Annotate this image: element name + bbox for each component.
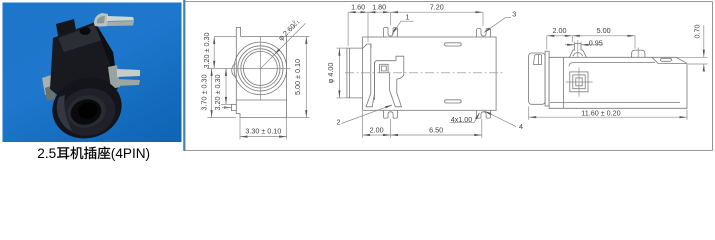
view1 dim 3.30 bottom — [239, 118, 241, 140]
view2 dim 1.80 — [390, 12, 392, 25]
svg-text:2.5: 2.5 — [37, 146, 56, 161]
caption glyph 耳 — [57, 147, 69, 159]
view3 window centerlines — [566, 81, 593, 83]
svg-text:2.00: 2.00 — [370, 126, 384, 135]
view1 dim 3.20 inner-left — [225, 68, 227, 104]
caption glyph 机 — [70, 147, 83, 160]
svg-text:5.00: 5.00 — [597, 26, 611, 35]
frame: top border — [184, 1, 713, 3]
view2 bottom-right pin — [477, 110, 491, 118]
jack photo: top-left black tab — [56, 19, 77, 41]
view2 contact spring left leg — [366, 44, 375, 107]
view3 top pin — [570, 43, 587, 57]
svg-text:1.60: 1.60 — [351, 3, 365, 12]
view3 inner bottom line — [550, 102, 680, 104]
svg-text:(4PIN): (4PIN) — [111, 146, 150, 161]
view2 dim phi4.00 — [337, 47, 347, 49]
jack photo: barrel rim highlight — [57, 95, 72, 131]
svg-text:3.70 ± 0.30: 3.70 ± 0.30 — [199, 75, 208, 111]
view2 contact dimple — [380, 64, 389, 72]
view3 cap — [529, 53, 546, 104]
view2 dim 6.50 — [481, 119, 483, 138]
frame: blue separator line — [183, 0, 185, 151]
svg-text:3: 3 — [512, 9, 516, 18]
view3 dim 2.00 — [546, 36, 548, 50]
view2 body rect — [363, 37, 497, 110]
view2 dim 7.20 — [482, 12, 484, 26]
view3 dim 5.00 — [634, 36, 636, 49]
view3 flange — [545, 51, 549, 106]
jack photo: bent silver pin top — [94, 13, 108, 27]
view3 dim 0.95 — [574, 42, 576, 48]
view3 window outer — [570, 72, 588, 92]
view2 barrel face — [347, 48, 363, 98]
svg-text:7.20: 7.20 — [430, 3, 444, 12]
view1 body outline — [236, 27, 286, 117]
svg-text:1: 1 — [406, 13, 410, 22]
view3 cap tab — [533, 55, 541, 65]
jack photo: top pin fork — [107, 16, 134, 21]
view2 top-left pin — [384, 28, 398, 37]
jack photo: barrel hole — [76, 100, 100, 121]
view2 slot bottom — [445, 100, 462, 103]
view2 internal chamfer — [363, 44, 371, 49]
view3 dome pin — [632, 50, 645, 57]
view3 dim 0.70 — [676, 56, 708, 58]
frame: right border — [712, 2, 714, 151]
view3 ledge — [652, 57, 687, 63]
svg-text:11.60 ± 0.20: 11.60 ± 0.20 — [581, 108, 620, 117]
view2 centerline — [345, 72, 505, 74]
svg-text:6.50: 6.50 — [429, 126, 443, 135]
view2 bottom-left pin — [384, 110, 398, 118]
svg-text:0.70: 0.70 — [692, 25, 701, 39]
jack photo: black knob on top — [80, 27, 91, 35]
view1 center lines — [207, 67, 291, 69]
jack photo: left silver tab — [42, 74, 56, 95]
view3 separator — [563, 57, 565, 108]
jack photo: barrel opening ring — [63, 91, 109, 133]
view3 body outline — [549, 57, 687, 108]
view1 left pin — [232, 104, 237, 110]
jack photo: body right facet — [95, 23, 118, 88]
svg-text:2: 2 — [337, 118, 341, 127]
view3 dim 11.60 — [528, 107, 530, 120]
svg-text:5.00 ± 0.10: 5.00 ± 0.10 — [293, 59, 302, 95]
svg-text:4: 4 — [519, 122, 523, 131]
svg-text:0.95: 0.95 — [589, 38, 603, 47]
view2 slot top — [445, 43, 462, 46]
frame: bottom border — [184, 150, 713, 152]
view1 leader phi2.60 — [261, 23, 306, 68]
view1 pin arrow — [224, 106, 232, 108]
caption glyph 座 — [98, 147, 111, 160]
svg-text:3.30 ± 0.10: 3.30 ± 0.10 — [245, 126, 281, 135]
jack photo: barrel — [45, 70, 129, 147]
jack photo: body top facet — [58, 25, 102, 52]
svg-text:1.80: 1.80 — [372, 3, 386, 12]
view2 dim 1.60 — [347, 12, 349, 46]
view2 contact spring block — [375, 56, 404, 100]
caption glyph 插 — [84, 147, 96, 160]
view3 inner top line — [569, 63, 655, 67]
svg-text:3.20 ± 0.30: 3.20 ± 0.30 — [213, 75, 222, 111]
view1 dim 3.70 left — [208, 117, 237, 119]
view2 contact arc — [397, 75, 404, 79]
view1 dim 5.00 right — [287, 35, 310, 37]
view2 dim 2.00 — [362, 111, 364, 138]
view3 ledge slot — [661, 58, 672, 61]
svg-text:2.00: 2.00 — [553, 26, 567, 35]
view1 chin line — [236, 99, 286, 101]
view1 side bump ellipse — [232, 64, 237, 77]
jack photo: lower right pin fork — [117, 69, 140, 77]
view1 jack opening circles — [234, 42, 287, 95]
view2 contact spring right leg — [390, 73, 402, 107]
svg-text:φ 4.00: φ 4.00 — [326, 63, 335, 84]
jack photo: lower right pin base — [108, 65, 120, 89]
svg-text:3.20 ± 0.30: 3.20 ± 0.30 — [202, 33, 211, 69]
view2 top-right pin — [477, 29, 491, 37]
view1 dim 3.20 top-left — [215, 35, 237, 37]
jack photo: main body — [50, 22, 118, 107]
